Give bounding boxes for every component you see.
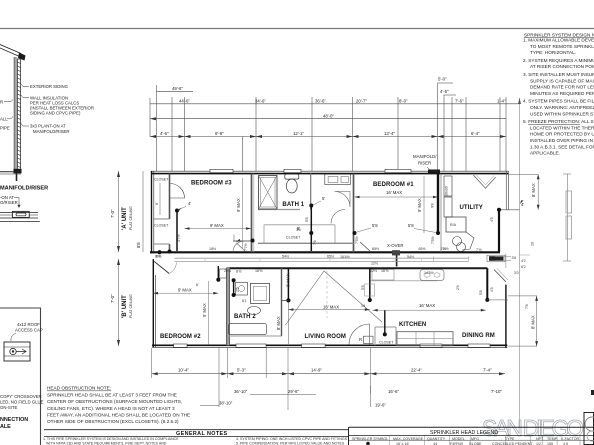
svg-text:EXTERIOR SIDING: EXTERIOR SIDING [30,84,69,89]
wall left face lines [13,57,15,172]
utility right wall step [498,210,500,253]
second row [250,394,288,396]
svg-text:9' MAX: 9' MAX [202,303,207,317]
sprinkler head S5 bed3 wall [251,239,255,243]
svg-text:3'0: 3'0 [514,271,519,275]
bath2 small sink box [236,282,248,295]
svg-text:MINUTES AS REQUIRED PER S: MINUTES AS REQUIRED PER S [530,91,594,96]
svg-text:PIPE: PIPE [0,126,10,131]
svg-text:ONLY. WARNING: ANTIFREEZE: ONLY. WARNING: ANTIFREEZE [530,105,594,110]
svg-text:SUPPLY IS CAPABLE OF MAIN: SUPPLY IS CAPABLE OF MAIN [530,78,594,83]
svg-text:9' MAX: 9' MAX [178,288,192,293]
svg-text:O/RISER: O/RISER [0,200,18,205]
sprinkler head S15 kitchen/dining [485,298,489,302]
plant-on plan detail [0,211,38,213]
A unit vertical dim [118,171,120,252]
svg-text:5'8: 5'8 [372,223,378,228]
wall cap (dark block at top of wall) [18,53,26,61]
utility lower rooms [446,217,466,232]
bath2/living wall [281,268,283,336]
svg-text:48'-0": 48'-0" [323,113,334,118]
utility right closet [520,200,524,204]
manifold/riser label [413,154,440,174]
svg-text:13'-4": 13'-4" [384,131,395,136]
svg-text:7'-10": 7'-10" [491,389,502,394]
utility appliances [444,176,452,196]
kitchen heads [369,298,371,300]
svg-text:5'8: 5'8 [408,223,414,228]
svg-text:2'6: 2'6 [456,285,460,290]
bath2 toilet [248,307,261,315]
svg-text:54½: 54½ [407,255,414,259]
svg-text:HOME OR PROTECTED BY USE: HOME OR PROTECTED BY USE [530,132,594,137]
entry diagonal door [154,261,169,273]
bath1/bed1 wall [353,174,355,253]
bath1 shower [259,176,278,210]
svg-text:49'-6": 49'-6" [172,86,183,91]
row B [150,103,520,105]
svg-text:CLOSET: CLOSET [154,224,169,228]
svg-text:KITCHEN: KITCHEN [399,322,426,328]
svg-text:FLAT CEILING: FLAT CEILING [129,206,133,230]
svg-text:ON-SITE: ON-SITE [0,405,18,410]
small mark top right [591,390,594,395]
svg-text:12½: 12½ [371,262,378,266]
legend box [349,426,594,428]
svg-text:7'½: 7'½ [476,248,482,252]
svg-text:DINING RM: DINING RM [462,333,495,339]
B left wall [152,259,154,347]
kitchen counters top [370,280,437,282]
utility diagonal corner [473,175,495,188]
bedroom3 hall door [233,240,255,242]
svg-text:29'-6": 29'-6" [288,389,299,394]
svg-text:MANIFOLD/: MANIFOLD/ [413,154,437,159]
marriage wall (A bottom) [150,251,500,253]
svg-text:10: 10 [531,242,535,246]
sprinkler head S10 bedroom2 [216,278,220,282]
svg-text:4'5: 4'5 [490,287,494,292]
svg-text:65½: 65½ [419,247,426,251]
svg-text:5': 5' [322,196,325,201]
svg-text:TYPE: HORIZONTAL.: TYPE: HORIZONTAL. [530,50,576,55]
sprinkler head S1 bedroom3 [175,209,179,213]
svg-text:30x30: 30x30 [445,186,449,196]
svg-text:9' MAX: 9' MAX [417,198,422,212]
bath1 south wall [258,209,300,211]
svg-text:4'5: 4'5 [490,217,494,222]
svg-text:54½: 54½ [282,254,289,258]
sprinkler head S13 living left [286,298,290,302]
svg-text:8' MAX: 8' MAX [531,183,536,197]
svg-text:8' MAX: 8' MAX [276,316,281,330]
bath2 tub [229,324,267,335]
svg-text:6': 6' [155,202,159,205]
bath1 toilet [285,174,299,179]
right band small dims [495,254,530,270]
B unit vertical dim [118,259,120,346]
svg-text:7'6: 7'6 [313,240,317,245]
svg-text:2. SYSTEM REQUIRES A MINIMUM: 2. SYSTEM REQUIRES A MINIMUM [523,58,594,63]
bedroom3 door arc [170,184,185,199]
svg-text:COPY' CROSSOVER: COPY' CROSSOVER [0,394,42,399]
svg-text:R: R [0,99,3,104]
svg-text:1. MAXIMUM ALLOWABLE DEVELO: 1. MAXIMUM ALLOWABLE DEVELO [523,38,594,43]
svg-text:3'6: 3'6 [512,256,517,260]
svg-text:22½: 22½ [370,269,377,273]
svg-text:19'-6": 19'-6" [375,402,386,407]
sprinkler head S7 bedroom1 right [436,231,440,235]
svg-text:X-OVER: X-OVER [387,243,403,248]
bath2 south wall [227,335,282,337]
svg-text:'B' UNIT: 'B' UNIT [122,295,128,318]
B top counter band (gray) [175,257,469,259]
left exterior wall [151,171,153,254]
svg-text:5'-3": 5'-3" [237,368,246,373]
svg-text:3. SITE INSTALLER MUST INSURE: 3. SITE INSTALLER MUST INSURE [523,72,594,77]
svg-text:4'2: 4'2 [521,259,526,263]
svg-text:DEMAND RATE FOR NOT LESS: DEMAND RATE FOR NOT LESS [530,85,594,90]
windows on top wall [210,169,233,172]
svg-text:16'½: 16'½ [255,269,263,273]
living front door arc [349,324,370,345]
svg-text:2'½: 2'½ [443,247,449,251]
sprinkler head S8 utility [497,208,501,212]
svg-text:9'8: 9'8 [431,203,435,208]
closet wall bedroom3 [169,174,171,219]
svg-text:CLOSET: CLOSET [286,236,301,240]
svg-text:INSTALLED OVER PIPING IN AC: INSTALLED OVER PIPING IN AC [530,138,594,143]
svg-text:BEDROOM #1: BEDROOM #1 [373,182,414,188]
sprinkler head S11 bath2 upper [232,278,236,282]
svg-text:34'-6": 34'-6" [255,99,266,104]
svg-text:6'-4": 6'-4" [471,131,480,136]
svg-text:BEDROOM #2: BEDROOM #2 [160,334,201,340]
svg-text:FLAT CEILING: FLAT CEILING [129,294,133,318]
bottom windows [174,344,187,347]
svg-text:FEET AWAY, AN ADDITIONAL HEAD: FEET AWAY, AN ADDITIONAL HEAD SHALL BE L… [47,413,190,418]
svg-text:65½: 65½ [372,247,379,251]
border: notes column vertical line [519,98,521,427]
svg-text:LIVING ROOM: LIVING ROOM [305,334,346,340]
svg-text:16'4½: 16'4½ [340,255,350,259]
kitchen island bottom [397,332,453,346]
svg-text:8'8: 8'8 [136,242,141,248]
svg-text:16' MAX: 16' MAX [323,305,339,310]
svg-text:3'8: 3'8 [296,228,301,232]
svg-text:APPLICABLE.: APPLICABLE. [530,151,560,156]
svg-text:ALE: ALE [0,424,11,430]
svg-text:'A' UNIT: 'A' UNIT [122,207,128,230]
svg-text:7'5½: 7'5½ [355,236,359,244]
bedroom3 / bath wall [251,174,253,253]
insulation hatch strip [17,59,20,170]
svg-text:AT RISER CONNECTION POINT: AT RISER CONNECTION POINT [530,64,594,69]
bedroom2/bath2 wall [226,268,229,346]
svg-text:16'½: 16'½ [381,269,389,273]
svg-text:6'2: 6'2 [521,265,526,269]
svg-text:LED, NO FIELD GLUE: LED, NO FIELD GLUE [0,400,44,405]
svg-text:BEDROOM #3: BEDROOM #3 [191,181,232,187]
svg-text:10'-4": 10'-4" [178,368,189,373]
dining dims [487,299,508,301]
svg-text:22'-4": 22'-4" [411,368,422,373]
bath1 door arcs [310,173,312,209]
svg-text:5. PIPE COMPENSATION: PER MFG: 5. PIPE COMPENSATION: PER MFG LISTED VAL… [236,441,345,445]
svg-text:7'8: 7'8 [525,304,529,309]
svg-text:4'-6": 4'-6" [160,131,169,136]
svg-text:OTHER SIDE OF OBSTRUCTION (EXC: OTHER SIDE OF OBSTRUCTION (EXCL CLOSETS)… [47,419,179,424]
svg-text:7'-0": 7'-0" [110,209,115,218]
svg-text:7'5½: 7'5½ [431,236,435,244]
svg-text:7'-4": 7'-4" [483,368,492,373]
svg-text:14'5½: 14'5½ [424,271,434,275]
sprinkler head S2 bedroom3 wall [168,250,172,254]
svg-text:18½: 18½ [209,247,216,251]
svg-text:5'8: 5'8 [305,217,309,222]
svg-text:8' MAX: 8' MAX [531,315,536,329]
sprinkler head S14 living right [368,298,372,302]
svg-text:8'-0": 8'-0" [399,99,408,104]
svg-text:GENERAL NOTES: GENERAL NOTES [176,431,228,437]
svg-text:4'7½: 4'7½ [177,234,181,242]
svg-text:USED WITHIN SPRINKLER SYS: USED WITHIN SPRINKLER SYS [530,111,594,116]
sprinkler head S3 bath1 [309,204,313,208]
border: top horizontal sheet line [0,28,594,30]
svg-text:BATH 2: BATH 2 [234,314,256,320]
svg-text:1'-4": 1'-4" [497,99,506,104]
row C long 48'-0" [150,118,506,120]
svg-text:36'-10": 36'-10" [234,389,248,394]
sprinkler head S4 hall closet [309,231,313,235]
svg-text:38'-10": 38'-10" [219,400,233,405]
svg-text:4': 4' [521,202,524,207]
svg-text:9' MAX: 9' MAX [210,223,224,228]
svg-text:8' MAX: 8' MAX [286,273,291,287]
svg-text:12'-1": 12'-1" [293,131,304,136]
row D [150,136,506,138]
svg-text:7'-0": 7'-0" [110,294,115,303]
dining right wall [505,285,507,348]
svg-text:6': 6' [196,283,199,287]
svg-text:4': 4' [188,201,191,206]
svg-text:R: R [359,337,362,342]
row A 49'-6" [157,90,194,92]
svg-text:1.30 A.B.3.1. SEE DETAIL FOR: 1.30 A.B.3.1. SEE DETAIL FOR [530,144,594,149]
svg-text:2'6: 2'6 [236,287,240,292]
floor line [14,169,22,174]
bath2 linen shelf [220,269,227,278]
svg-text:65½: 65½ [327,254,334,258]
svg-text:22½: 22½ [224,269,231,273]
svg-text:5'8: 5'8 [361,285,365,290]
svg-text:CLOSET: CLOSET [379,341,394,345]
svg-text:NNECTION: NNECTION [0,417,28,423]
svg-text:5'-0": 5'-0" [438,77,447,82]
bath1 hall/closet walls [258,242,354,244]
kitchen/dining pipe wall [486,268,488,300]
legend sprinkler symbol dot [366,442,370,445]
marriage band label box [489,256,504,261]
B top interior wall (bath2..kitchen) [227,267,487,269]
svg-text:CENTER OF OBSTRUCTIONS (SURFAC: CENTER OF OBSTRUCTIONS (SURFACE MOUNTED … [47,399,182,404]
svg-text:WITH NFPA 13D AND STATE REQUIR: WITH NFPA 13D AND STATE REQUIREMENTS. FI… [46,441,167,445]
roof slant lines [0,45,21,54]
svg-text:4x12 ROOF: 4x12 ROOF [17,322,40,327]
svg-text:36'-6": 36'-6" [315,99,326,104]
svg-text:UTILITY: UTILITY [460,205,483,211]
svg-text:RISER: RISER [418,161,431,166]
svg-text:HEAD OBSTRUCTION NOTE:: HEAD OBSTRUCTION NOTE: [47,386,111,391]
svg-text:6'½: 6'½ [155,255,161,259]
svg-text:8'½: 8'½ [236,270,242,274]
svg-text:BATH 1: BATH 1 [282,202,304,208]
svg-text:7'7½: 7'7½ [244,243,248,251]
svg-text:16' MAX: 16' MAX [386,190,402,195]
svg-text:4. SYSTEM PIPES SHALL BE FILL: 4. SYSTEM PIPES SHALL BE FILL [523,99,594,104]
bed1/utility marriage heavy wall [437,174,439,233]
svg-text:7'-6": 7'-6" [455,99,464,104]
svg-text:CEILING FANS, ETC). WHERE A HE: CEILING FANS, ETC). WHERE A HEAD IS NOT … [47,406,175,411]
living closet [375,326,396,328]
cap plan drawing [4,342,30,361]
svg-text:5'8: 5'8 [479,290,483,295]
svg-text:MANIFOLD/RISER: MANIFOLD/RISER [33,129,70,134]
svg-text:6'1: 6'1 [242,299,247,303]
svg-text:16' MAX: 16' MAX [419,303,435,308]
sprinkler head S9 bedroom2 entry [157,250,161,254]
svg-text:5. FREEZE PROTECTION: ALL SP: 5. FREEZE PROTECTION: ALL SP [523,119,594,124]
svg-text:9' MAX: 9' MAX [236,198,241,212]
svg-text:4'-5": 4'-5" [440,89,449,94]
living ceiling diagonals [286,271,325,325]
dining corner diagonal [494,270,506,283]
svg-text:CLOSET: CLOSET [154,178,169,182]
svg-text:14'-9": 14'-9" [311,368,322,373]
svg-text:MANIFOLD/RISER: MANIFOLD/RISER [0,186,48,192]
svg-text:TO MOST REMOTE SPRINKLER: TO MOST REMOTE SPRINKLER [530,44,594,49]
svg-text:16'-6": 16'-6" [388,389,399,394]
svg-text:19: 19 [361,304,365,308]
svg-text:ACCESS CAP: ACCESS CAP [15,328,43,333]
detail box border [0,308,41,445]
sprinkler head S12 bath2 lower [232,293,236,297]
sprinkler head S6 bedroom1 left [353,231,357,235]
svg-text:LOCATED WITHIN THE THERMA: LOCATED WITHIN THE THERMA [530,125,594,130]
top exterior wall [151,170,509,172]
B bottom exterior wall [152,344,507,346]
svg-text:20'-7": 20'-7" [356,99,367,104]
svg-text:SPRINKLER HEAD SHALL BE AT LEA: SPRINKLER HEAD SHALL BE AT LEAST 3 FEET … [47,392,177,397]
svg-text:9'-9": 9'-9" [215,131,224,136]
sprinkler head S16 kitchen closet [383,332,387,336]
logo box right [584,413,594,445]
svg-text:44'-6": 44'-6" [179,99,190,104]
bath2 shower [251,283,270,303]
svg-text:SIDING AND CPVC PIPE): SIDING AND CPVC PIPE) [30,111,81,116]
svg-text:R/A: R/A [450,223,457,227]
bath1 vanity [325,174,351,184]
